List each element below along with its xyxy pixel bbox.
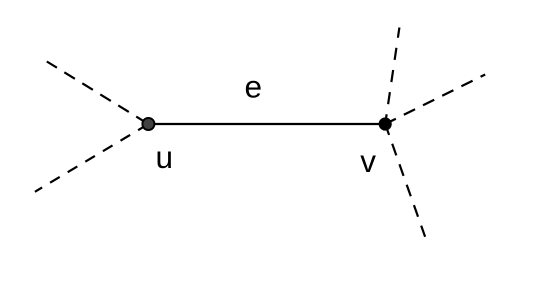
edge e (u to v) (148, 123, 385, 125)
dashed edge upper-left of u (47, 62, 149, 125)
vertex u (142, 118, 154, 130)
dashed edge lower-left of u (35, 124, 148, 192)
vertex v (379, 117, 392, 130)
dashed edge upper-right of v (385, 75, 485, 125)
svg-text:v: v (360, 143, 376, 179)
dashed edge up from v (385, 28, 399, 125)
svg-text:e: e (245, 68, 263, 104)
svg-text:u: u (156, 139, 174, 175)
dashed edge lower-right of v (385, 124, 425, 237)
